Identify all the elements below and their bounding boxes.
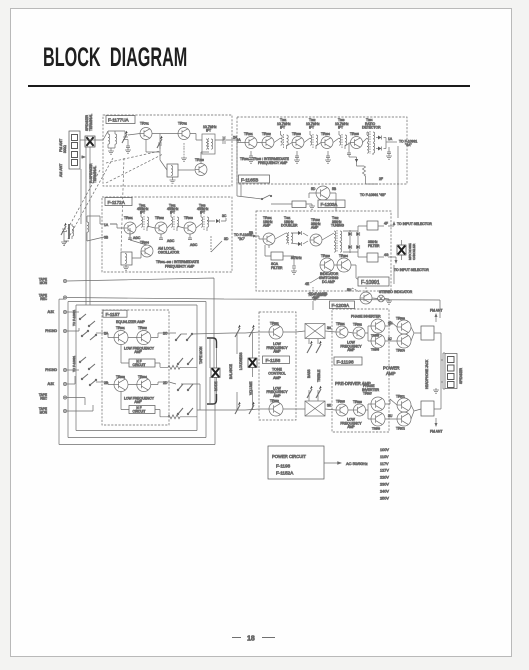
svg-text:AMP: AMP [386, 371, 396, 376]
wire 1A down to selector [397, 146, 399, 218]
svg-text:TR703: TR703 [195, 158, 204, 162]
transistor TR569 [397, 320, 411, 334]
label SPEAKER TERMINAL top [85, 114, 93, 131]
tuning gang dashed link 3 [66, 170, 100, 232]
wire TR403 TR404 [334, 265, 359, 280]
jack TAPE MON R [39, 407, 67, 414]
indicator lamp [378, 295, 385, 302]
svg-text:SPEAKER: SPEAKER [459, 367, 463, 384]
svg-text:IFT: IFT [309, 126, 314, 130]
F-1157 box [102, 310, 169, 425]
arrow into strip [81, 156, 85, 158]
transistor TR571 [397, 398, 411, 412]
svg-text:2C: 2C [163, 332, 168, 336]
svg-text:F-1165B: F-1165B [241, 177, 258, 182]
svg-text:2F: 2F [379, 177, 383, 181]
svg-text:5B: 5B [332, 187, 337, 191]
wire bar to TR801 [87, 216, 117, 241]
svg-text:F-1157: F-1157 [106, 312, 121, 317]
svg-text:240V: 240V [380, 489, 389, 493]
jack AUX L [47, 310, 66, 314]
wire TR551 out [259, 331, 305, 409]
wire channel top to pots [169, 332, 259, 334]
IFT T802 coils [171, 213, 179, 231]
output block top [421, 326, 434, 340]
osc coil box [121, 252, 132, 265]
tone network xbox bottom [305, 401, 325, 416]
svg-text:FILTER: FILTER [368, 244, 380, 248]
svg-text:3B: 3B [104, 236, 109, 240]
transistor TR801 [124, 222, 136, 234]
F-11198 label [334, 357, 362, 365]
svg-text:TR567: TR567 [363, 392, 372, 396]
transistor TR566 [354, 404, 366, 416]
svg-text:F-1203A: F-1203A [321, 202, 338, 207]
svg-text:250V: 250V [380, 496, 389, 500]
svg-text:3J: 3J [388, 337, 392, 341]
svg-text:TR566: TR566 [353, 400, 362, 404]
wire outputs to speaker [434, 333, 443, 409]
F-10991 label [358, 277, 389, 286]
wire canceler [401, 240, 403, 260]
svg-text:DOUBLER: DOUBLER [281, 224, 298, 228]
svg-text:TR205: TR205 [350, 132, 359, 136]
antenna coil secondary [87, 219, 89, 241]
ratio det transformer coils [367, 131, 375, 154]
svg-text:3C: 3C [222, 214, 227, 218]
svg-text:AGC: AGC [133, 236, 141, 240]
wire IFT out to 2A [215, 137, 237, 140]
svg-text:AGC: AGC [190, 243, 198, 247]
output block bottom [421, 401, 434, 416]
svg-text:TO F-10991: TO F-10991 [72, 310, 76, 326]
svg-text:AMP: AMP [134, 400, 142, 404]
antenna terminal strip [69, 131, 80, 169]
transistor TR564 phase [371, 334, 385, 348]
svg-text:TR804: TR804 [140, 241, 149, 245]
NF circuit box 2 [129, 406, 155, 414]
svg-text:AMP: AMP [273, 376, 281, 380]
wire TR803-T803 [196, 221, 215, 228]
label TO F-10991 4A [399, 140, 417, 148]
pot treble 1 [307, 386, 313, 398]
label 4E [305, 277, 320, 286]
wire aux L [67, 311, 79, 313]
selector contacts upper [79, 314, 96, 340]
svg-text:AMP: AMP [273, 394, 281, 398]
ground ant [61, 242, 67, 245]
transistor TR568 phase [371, 412, 385, 426]
wire eq top [102, 333, 169, 338]
wire channel bottom to pots [169, 382, 259, 410]
label 10.7MHz IFT [203, 125, 217, 133]
IFT T203 coils [339, 131, 347, 149]
label FM ANT bottom [430, 418, 442, 434]
svg-text:TAPE MON: TAPE MON [199, 346, 203, 364]
svg-text:3D: 3D [224, 237, 229, 241]
svg-text:REC: REC [40, 397, 47, 401]
wire TR701 out [152, 133, 178, 135]
svg-text:TR563: TR563 [371, 334, 380, 338]
svg-text:TR202: TR202 [262, 132, 271, 136]
ground output [433, 388, 439, 393]
svg-text:127V: 127V [380, 469, 389, 473]
wire SCA [265, 245, 294, 266]
transistor TR562 [353, 327, 365, 339]
svg-text:4E: 4E [305, 282, 310, 286]
F-1157 label [103, 310, 127, 317]
transistor TR403 [320, 258, 334, 272]
feedback resistor 1 [168, 365, 180, 369]
wire TR701 in [128, 134, 140, 136]
transistor TR602 [137, 331, 151, 345]
svg-text:IFT: IFT [338, 126, 343, 130]
jack TAPE REC L [39, 294, 67, 301]
cap cluster [291, 266, 297, 274]
wire in TR801 [110, 224, 124, 228]
ground lamp [372, 298, 392, 304]
label TR401 19kHz AMP [263, 216, 273, 228]
wire TR802-T802 [167, 224, 184, 228]
svg-text:1A: 1A [388, 137, 393, 141]
svg-text:AGC: AGC [167, 239, 175, 243]
svg-text:230V: 230V [380, 483, 389, 487]
wires to filter boxes [358, 226, 384, 257]
af diode [349, 157, 358, 166]
IFT T201 coils [281, 131, 289, 149]
svg-text:MODE: MODE [214, 381, 218, 391]
svg-text:110V: 110V [380, 455, 389, 459]
svg-text:1A: 1A [104, 223, 109, 227]
label R-SPEAKER TERMINAL [89, 163, 97, 183]
wire tape rec R [67, 398, 85, 406]
tape switch contacts bottom [177, 408, 193, 415]
svg-text:LOUDNESS: LOUDNESS [239, 352, 243, 370]
transistor TR570 [397, 334, 411, 348]
ground after resistor [309, 206, 315, 209]
label 38kHz FILTER [368, 240, 380, 248]
svg-text:IFT: IFT [206, 129, 211, 133]
svg-text:TR403: TR403 [321, 254, 330, 258]
38kHz filter box top [367, 221, 378, 230]
svg-text:BALANCE: BALANCE [229, 364, 233, 379]
wire NF1 [121, 345, 197, 368]
MPX decoder box [256, 211, 391, 291]
wire selector to 2A [96, 332, 102, 334]
svg-text:IFT: IFT [280, 126, 285, 130]
svg-text:F-1152A: F-1152A [276, 471, 294, 476]
gang link inside box b [106, 154, 163, 183]
svg-text:TR801: TR801 [124, 216, 133, 220]
wires front coils [103, 131, 125, 151]
label T803 [197, 204, 209, 215]
label TR402 38kHz AMP [311, 218, 321, 230]
svg-text:PHONO: PHONO [45, 329, 57, 333]
wire NF2 [121, 392, 197, 417]
label T203 [335, 118, 349, 130]
label 3D out [211, 237, 229, 252]
resistor stub TR702 [181, 143, 187, 161]
wire eq bottom [102, 382, 169, 385]
svg-text:TR562: TR562 [353, 323, 362, 327]
svg-text:CANCELER: CANCELER [412, 243, 416, 260]
IF wires bus [237, 132, 373, 155]
svg-text:"2F": "2F" [312, 297, 319, 301]
wire aux R [67, 376, 75, 384]
svg-text:300Ω: 300Ω [63, 145, 67, 153]
svg-text:5D: 5D [311, 187, 316, 191]
af takeoff cap [347, 143, 351, 158]
wire pre-driver top [325, 326, 371, 341]
label T802 [167, 204, 179, 215]
wire phono L [67, 328, 79, 331]
doubler diodes [298, 231, 301, 246]
svg-text:AMP: AMP [134, 350, 142, 354]
tape switch contacts mid2 [177, 384, 193, 391]
transistor TR402 [310, 234, 322, 246]
tape loop rect outer [59, 299, 215, 444]
ferrite bar antenna [69, 224, 74, 239]
svg-text:CIRCUIT: CIRCUIT [133, 410, 146, 414]
label T201 [277, 118, 291, 130]
T401 doubler transformer [286, 232, 293, 245]
cap stub TR803 [188, 234, 192, 240]
wire tape rec L long [67, 298, 440, 319]
transistor TR701 [140, 128, 152, 140]
svg-text:F-11198: F-11198 [337, 359, 354, 365]
svg-text:CIRCUIT: CIRCUIT [133, 363, 146, 367]
AC arrow [324, 462, 341, 465]
pot bass 1 [307, 341, 313, 353]
AM tuning cap [61, 223, 69, 241]
svg-text:AMP: AMP [347, 348, 355, 352]
svg-text:2D: 2D [163, 381, 168, 385]
svg-text:F-1177UA: F-1177UA [108, 118, 130, 123]
wire TR801-T801 [136, 224, 155, 228]
svg-text:FREQUENCY AMP: FREQUENCY AMP [258, 161, 288, 165]
svg-text:STEREO INDICATOR: STEREO INDICATOR [379, 290, 413, 294]
wire strip down to AM bar [80, 169, 82, 224]
label LOW FREQUENCY AMP 1 [124, 346, 155, 354]
ratio detector diodes [376, 136, 386, 151]
transistor TR803 [184, 222, 196, 234]
svg-text:F-1203A: F-1203A [332, 303, 351, 308]
jack PHONO L [45, 329, 66, 333]
svg-text:TR803: TR803 [184, 216, 193, 220]
IFT T202 coils [310, 131, 318, 149]
label TO F-1165B 2C [234, 233, 253, 241]
arrow TO INPUT SELECTOR top [388, 222, 432, 226]
wire pots vertical [237, 333, 253, 410]
tape loop rect middle [68, 302, 206, 438]
svg-text:TR201: TR201 [244, 132, 253, 136]
svg-text:TO INPUT SELECTOR: TO INPUT SELECTOR [397, 222, 432, 226]
svg-text:MON: MON [40, 281, 48, 285]
input coil 1 [108, 131, 110, 148]
label MPX NOISE CANCELER [408, 243, 416, 260]
svg-text:FILTER: FILTER [271, 266, 283, 270]
cap stub TR201 [248, 151, 254, 163]
label T401 19kHz DOUBLER [281, 216, 298, 228]
wire indicator drop [393, 265, 395, 284]
POWER CIRCUIT box [268, 446, 324, 479]
pot balance L [235, 325, 241, 337]
transistor TR552 [269, 402, 283, 416]
indicator transistor [360, 292, 372, 304]
svg-text:POWER: POWER [383, 366, 400, 371]
jack PHONO R [45, 368, 66, 372]
label POWER AMP [383, 366, 400, 376]
voltage list [380, 448, 389, 500]
transistor TR601 [114, 331, 128, 345]
pot volume R [249, 402, 255, 414]
F-1203A label upper [318, 200, 345, 208]
svg-text:DC AMP: DC AMP [322, 280, 336, 284]
label TR801-803 intermediate [156, 260, 200, 269]
label INDICATOR SWITCHING DC AMP [319, 272, 339, 284]
svg-text:TR204: TR204 [321, 132, 330, 136]
svg-text:DETECTOR: DETECTOR [362, 126, 381, 130]
interstage cap [157, 134, 163, 150]
svg-text:3U: 3U [388, 414, 393, 418]
transistor TR572 [397, 412, 411, 426]
IFT T801 coils [141, 213, 149, 231]
de-emphasis resistor [357, 166, 366, 180]
transistor TR802 [155, 222, 167, 234]
wire xtal gnd [172, 177, 174, 180]
svg-text:FM ANT: FM ANT [430, 309, 442, 313]
F-1172A box [102, 197, 232, 272]
svg-text:ℓ67kHz: ℓ67kHz [291, 256, 302, 260]
label LOW FREQUENCY AMP pd bottom [340, 418, 362, 430]
page number [232, 636, 275, 643]
transistor TR563 phase [371, 319, 385, 333]
MODE connector [211, 368, 220, 378]
transistor TR804 osc [141, 245, 153, 257]
wire speaker term down [86, 147, 90, 305]
svg-text:OSCILLATOR: OSCILLATOR [158, 251, 180, 255]
jack TAPE REC R [39, 393, 67, 400]
F-1172A label [105, 198, 132, 206]
wire tape mon R [67, 405, 93, 411]
svg-text:AMP: AMP [263, 224, 271, 228]
wire pre-driver bottom [325, 404, 371, 419]
F-1177UA label [106, 116, 135, 124]
svg-text:4F: 4F [384, 222, 388, 226]
label FM ANT 300ohm [59, 138, 67, 153]
svg-text:AUX: AUX [47, 382, 54, 386]
svg-text:TR702: TR702 [178, 122, 187, 126]
svg-text:5B: 5B [249, 231, 254, 235]
label 5B in [249, 231, 256, 237]
label LOW FREQ AMP t [266, 342, 288, 354]
wire TR401 chain [256, 233, 308, 244]
wire TR702 to IFT [190, 134, 202, 141]
svg-text:F-1172A: F-1172A [108, 200, 126, 205]
label T202 [306, 118, 320, 130]
label T402 38kHz TUNING [331, 216, 344, 228]
pot loudness L [249, 325, 255, 337]
tuning gang dashed link 1 [64, 158, 113, 246]
F-1156 box [259, 312, 296, 420]
tuning gang dashed link 2 [121, 158, 124, 252]
svg-text:TR564: TR564 [371, 348, 380, 352]
transistor TR561 [336, 326, 348, 338]
svg-text:"4A": "4A" [405, 143, 412, 147]
ground xtal [170, 180, 176, 183]
IFT T803 coils [201, 213, 209, 231]
MPX noise canceler connector [397, 245, 406, 255]
input coil 2 [115, 131, 117, 148]
svg-text:TR602: TR602 [138, 326, 147, 330]
svg-text:REC: REC [40, 297, 47, 301]
transistor TR565 [336, 404, 348, 416]
wire TR703 to xtal [178, 169, 195, 171]
label TO F-10991 4B [360, 193, 387, 197]
svg-text:TUNING: TUNING [331, 224, 344, 228]
svg-text:AM ANT: AM ANT [59, 163, 63, 177]
svg-text:3K: 3K [327, 404, 332, 408]
transistor TR205 [351, 137, 363, 149]
T402 tuning transformer [334, 230, 342, 252]
wire tape mon L long [67, 278, 214, 368]
tape switch contacts top [175, 333, 192, 340]
svg-text:TR404: TR404 [339, 254, 348, 258]
svg-text:"2C": "2C" [238, 237, 246, 241]
svg-text:3H: 3H [388, 322, 393, 326]
svg-text:AMP: AMP [311, 226, 319, 230]
svg-text:5H: 5H [347, 288, 352, 292]
transistor TR567 phase [371, 397, 385, 411]
svg-text:PHASE INVERTER: PHASE INVERTER [351, 315, 381, 319]
jack TAPE MON L [39, 278, 67, 285]
jack AUX R [47, 382, 66, 386]
svg-text:4G: 4G [384, 253, 389, 257]
F-1165B label [239, 175, 270, 183]
gang link inside box a [106, 151, 160, 163]
label intermediate freq amp [240, 157, 290, 165]
svg-text:TR572: TR572 [396, 427, 405, 431]
svg-text:FREQUENCY AMP: FREQUENCY AMP [165, 265, 195, 269]
wire phono R [67, 369, 79, 371]
svg-text:PHONO: PHONO [45, 368, 57, 372]
svg-text:220V: 220V [380, 476, 389, 480]
38kHz filter box bottom [367, 253, 378, 262]
cap stub TR802 [159, 234, 163, 240]
wire elbow bottom [207, 394, 217, 404]
svg-text:F-1156: F-1156 [266, 358, 281, 364]
svg-text:TR701: TR701 [140, 122, 149, 126]
svg-text:TERMINAL: TERMINAL [89, 114, 93, 131]
F-1165B box [237, 117, 407, 184]
ground osc [123, 267, 129, 270]
svg-text:HEADPHONE JACK: HEADPHONE JACK [425, 359, 429, 389]
svg-text:AMP: AMP [347, 425, 355, 429]
svg-text:BASS: BASS [307, 369, 311, 378]
svg-text:TR561: TR561 [336, 322, 345, 326]
svg-text:TR565: TR565 [336, 400, 345, 404]
svg-text:TO F-10991: TO F-10991 [72, 356, 76, 372]
svg-text:TREBLE: TREBLE [317, 370, 321, 382]
AGC resistor vertical [210, 236, 212, 252]
wire TR703 up [201, 152, 209, 163]
transistor TR202 [262, 137, 274, 149]
F-1177UA box [103, 115, 232, 186]
arrow TO INPUT SELECTOR bottom [388, 257, 429, 272]
svg-text:F-1198: F-1198 [276, 464, 291, 469]
svg-text:TR801–803 : INTERMEDIATE: TR801–803 : INTERMEDIATE [156, 260, 200, 264]
cap stub TR204 [325, 151, 331, 163]
